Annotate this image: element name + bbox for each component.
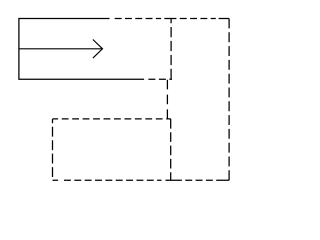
- window A solid outline (left, top, bottom edges): [19, 19, 144, 80]
- wire: dashed continuation of A bottom edge H4 (y=79.3, x 148.4..172): [148, 78, 172, 80]
- arrow head: [93, 40, 103, 59]
- wire: top dashed edge H2 (y=18.5, x 114.7..229.1): [115, 18, 229, 20]
- wire: vertical dashed segment V2 (x=171.1, y 18.7..79.3): [170, 19, 172, 80]
- wire: vertical dashed segment V4 right edge of bottom rect (x=170.7, y 119..180.3): [170, 119, 172, 180]
- wire: top dashed edge of bottom rect H5 (y=118.9, x 52.5..170.9): [53, 118, 171, 120]
- wire: vertical dashed segment V3 (x=167.4, y 79.8..119.1): [166, 80, 168, 119]
- wire: left dashed edge of bottom rect V5 (x=52.5, y 119..180.3): [52, 119, 54, 180]
- wire: right dashed edge of tall rect V6 (x=229.1, y 18.5..180.3): [228, 19, 230, 181]
- arrow shaft: [20, 48, 103, 50]
- wire: bottom dashed edge H6 (y=180.3, x 52.5..229.14): [53, 179, 230, 181]
